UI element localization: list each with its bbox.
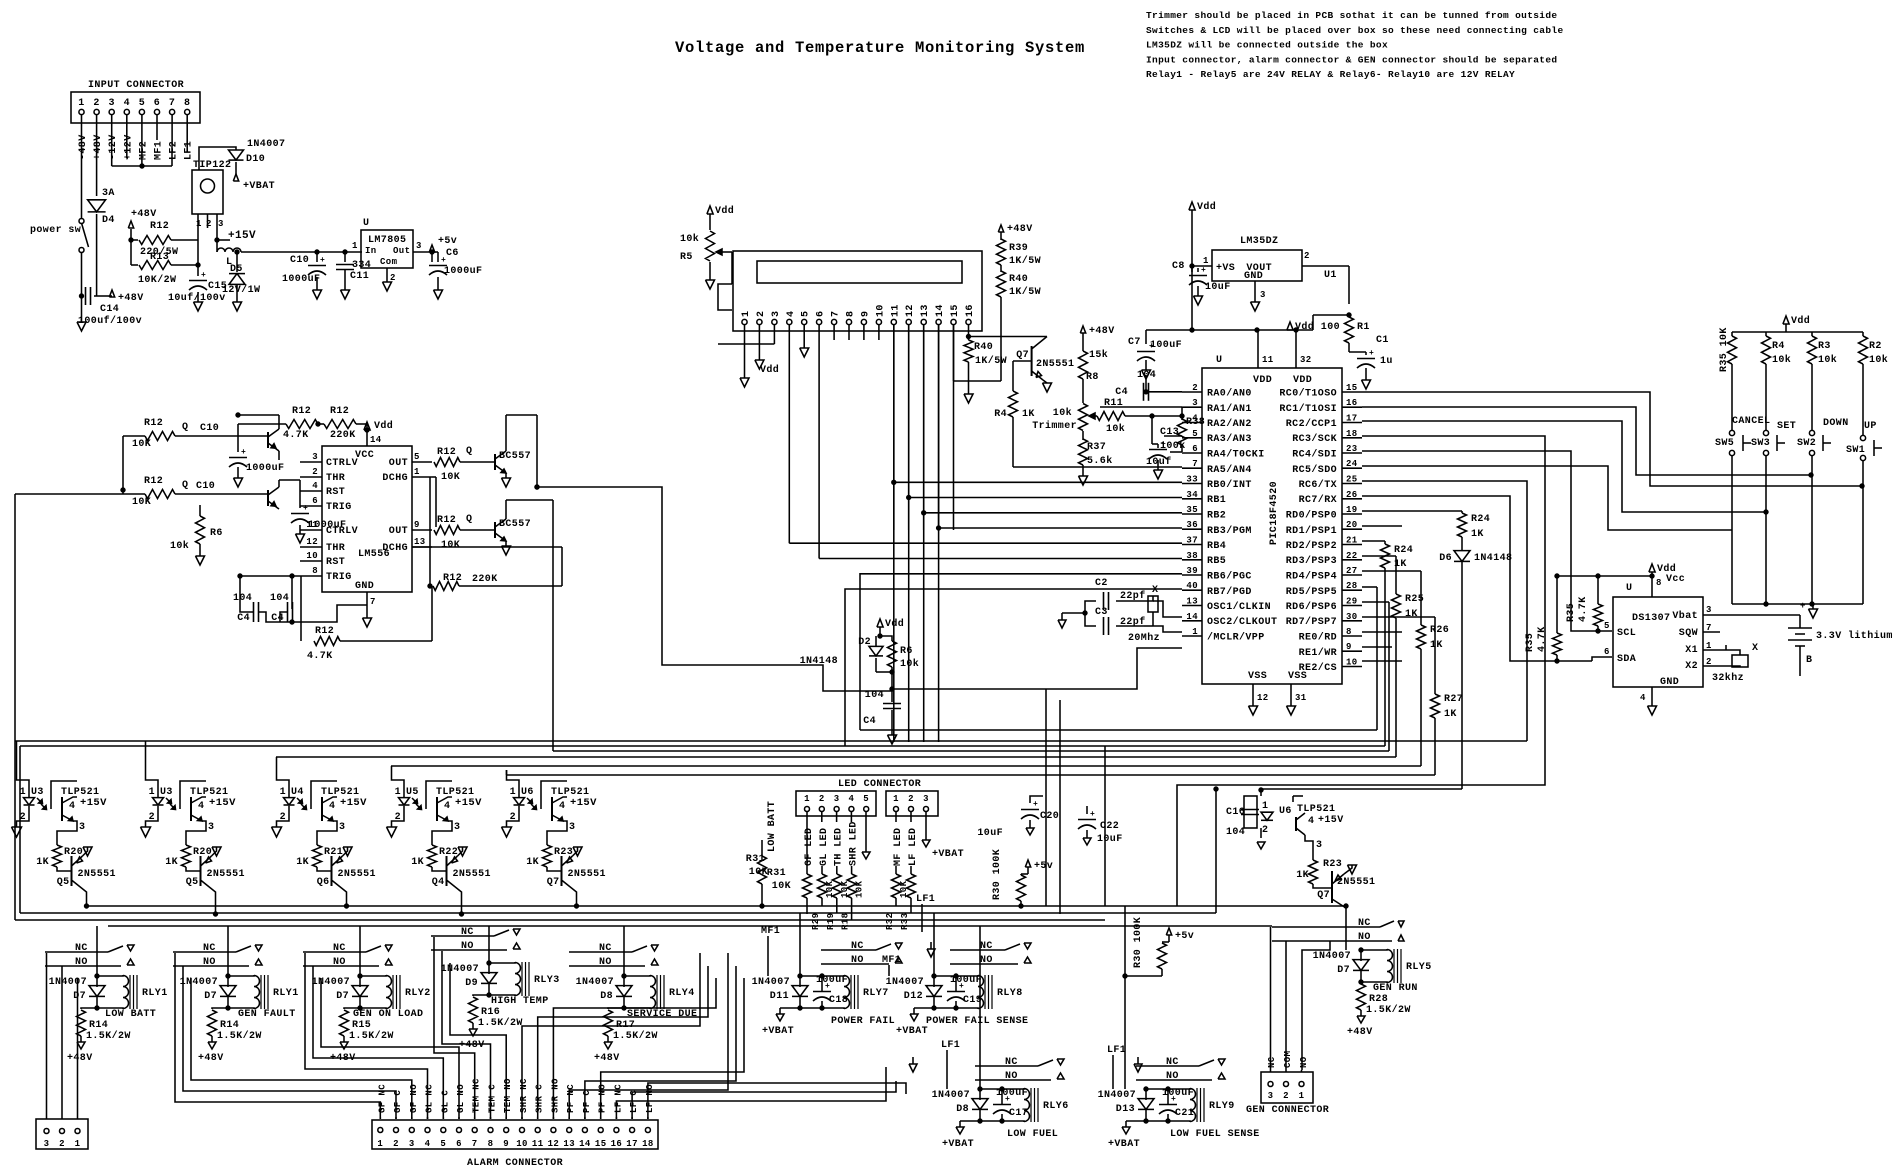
svg-text:1N4007: 1N4007 <box>441 964 479 975</box>
svg-text:+48V: +48V <box>93 134 104 160</box>
svg-text:Voltage and Temperature Monito: Voltage and Temperature Monitoring Syste… <box>675 39 1085 57</box>
svg-text:1: 1 <box>78 98 84 109</box>
svg-text:1000uF: 1000uF <box>246 463 284 474</box>
svg-text:10K: 10K <box>441 472 460 483</box>
svg-text:COM: COM <box>1283 1051 1293 1068</box>
svg-text:CTRLV: CTRLV <box>326 458 358 469</box>
svg-text:2N5551: 2N5551 <box>1036 359 1074 370</box>
svg-text:+: + <box>303 504 308 513</box>
svg-text:Vdd: Vdd <box>374 420 393 432</box>
svg-text:12: 12 <box>1257 693 1269 703</box>
svg-text:Q5: Q5 <box>57 877 70 888</box>
svg-text:8: 8 <box>846 311 857 317</box>
svg-text:2: 2 <box>59 1139 65 1149</box>
svg-text:1K/5W: 1K/5W <box>1009 286 1041 298</box>
svg-text:10uF: 10uF <box>977 828 1003 839</box>
svg-text:10k: 10k <box>1869 354 1888 366</box>
svg-text:TRIG: TRIG <box>326 502 352 513</box>
svg-text:15: 15 <box>950 304 961 317</box>
svg-text:R30 100K: R30 100K <box>1133 917 1144 968</box>
svg-text:RC0/T1OSO: RC0/T1OSO <box>1279 388 1337 400</box>
svg-text:B: B <box>1806 655 1812 666</box>
svg-text:100uF: 100uF <box>1150 340 1182 351</box>
svg-text:2N5551: 2N5551 <box>78 869 116 880</box>
svg-text:10K: 10K <box>749 867 768 878</box>
svg-text:LED CONNECTOR: LED CONNECTOR <box>838 779 921 790</box>
svg-text:6: 6 <box>312 496 318 506</box>
svg-text:10uF: 10uF <box>1205 282 1231 293</box>
svg-text:+48V: +48V <box>67 1053 93 1064</box>
svg-text:8: 8 <box>184 98 190 109</box>
svg-text:4: 4 <box>69 801 75 812</box>
svg-text:+: + <box>320 256 325 265</box>
svg-text:+15V: +15V <box>1318 815 1344 826</box>
svg-text:MF2: MF2 <box>138 141 149 160</box>
svg-text:10: 10 <box>306 551 318 561</box>
svg-text:DOWN: DOWN <box>1823 418 1849 429</box>
svg-text:GL NC: GL NC <box>425 1084 435 1113</box>
svg-text:2: 2 <box>393 1139 399 1149</box>
svg-text:4.7K: 4.7K <box>1537 626 1548 652</box>
svg-text:+: + <box>1171 1095 1176 1104</box>
svg-text:16: 16 <box>965 304 976 317</box>
svg-text:Vcc: Vcc <box>1666 574 1685 585</box>
svg-text:+VBAT: +VBAT <box>932 849 964 860</box>
svg-text:12: 12 <box>548 1139 560 1149</box>
svg-text:1: 1 <box>395 787 401 798</box>
svg-text:21: 21 <box>1346 536 1358 546</box>
svg-text:+: + <box>1369 349 1374 358</box>
svg-text:10: 10 <box>875 304 886 317</box>
svg-text:R4: R4 <box>1772 341 1785 352</box>
svg-text:R23: R23 <box>1323 859 1342 870</box>
svg-text:7: 7 <box>472 1139 478 1149</box>
svg-text:R12: R12 <box>443 573 462 584</box>
svg-text:2N5551: 2N5551 <box>338 869 376 880</box>
svg-text:U: U <box>363 218 369 229</box>
svg-text:R20: R20 <box>64 847 83 858</box>
svg-text:MF1: MF1 <box>761 926 780 937</box>
svg-text:1: 1 <box>893 794 899 804</box>
svg-text:3: 3 <box>208 822 214 833</box>
svg-text:D7: D7 <box>204 991 217 1002</box>
svg-text:LF1: LF1 <box>916 894 935 905</box>
svg-text:10uF: 10uF <box>1097 834 1123 845</box>
svg-text:RE0/RD: RE0/RD <box>1299 632 1337 644</box>
svg-text:1K: 1K <box>1022 409 1035 420</box>
svg-text:CANCEL: CANCEL <box>1732 416 1770 427</box>
svg-text:R12: R12 <box>315 626 334 637</box>
svg-text:3.3V lithium: 3.3V lithium <box>1816 630 1893 642</box>
svg-text:1: 1 <box>414 467 420 477</box>
svg-text:DCHG: DCHG <box>382 543 408 554</box>
svg-text:RD4/PSP4: RD4/PSP4 <box>1286 571 1337 583</box>
svg-text:4.7K: 4.7K <box>283 430 309 441</box>
svg-text:TH LED: TH LED <box>834 828 845 866</box>
svg-text:5: 5 <box>414 452 420 462</box>
svg-text:RLY1: RLY1 <box>142 988 168 999</box>
svg-text:4: 4 <box>124 98 130 109</box>
svg-text:TRIG: TRIG <box>326 572 352 583</box>
svg-text:16: 16 <box>1346 398 1358 408</box>
svg-text:R24: R24 <box>1471 514 1490 525</box>
svg-text:RLY4: RLY4 <box>669 988 695 999</box>
svg-text:4.7K: 4.7K <box>307 651 333 662</box>
svg-text:1000uF: 1000uF <box>282 274 320 285</box>
svg-text:5.6k: 5.6k <box>1087 455 1113 467</box>
svg-text:2: 2 <box>149 812 155 823</box>
svg-text:OSC2/CLKOUT: OSC2/CLKOUT <box>1207 616 1277 628</box>
svg-text:TEM C: TEM C <box>488 1084 498 1113</box>
svg-text:GF LED: GF LED <box>804 828 815 866</box>
svg-text:220K: 220K <box>472 574 498 585</box>
svg-text:RA3/AN3: RA3/AN3 <box>1207 433 1252 445</box>
svg-text:R2: R2 <box>1869 341 1882 352</box>
svg-text:+48V: +48V <box>131 209 157 220</box>
svg-text:1N4007: 1N4007 <box>312 977 350 988</box>
svg-text:104: 104 <box>233 593 252 604</box>
svg-text:1K: 1K <box>411 857 424 868</box>
svg-text:1K: 1K <box>36 857 49 868</box>
svg-text:8: 8 <box>1346 627 1352 637</box>
svg-text:1N4007: 1N4007 <box>886 977 924 988</box>
svg-text:6: 6 <box>1192 444 1198 454</box>
svg-text:3: 3 <box>1316 840 1322 851</box>
svg-text:R12: R12 <box>437 515 456 526</box>
svg-text:RB4: RB4 <box>1207 541 1226 552</box>
svg-text:+15V: +15V <box>455 797 482 809</box>
svg-text:Q7: Q7 <box>1016 350 1029 361</box>
svg-text:10K: 10K <box>899 880 909 898</box>
svg-text:+VBAT: +VBAT <box>942 1139 974 1150</box>
svg-text:+: + <box>1005 1095 1010 1104</box>
svg-text:RLY2: RLY2 <box>405 988 431 999</box>
svg-text:SHR C: SHR C <box>535 1084 545 1113</box>
svg-text:8: 8 <box>1656 578 1662 588</box>
svg-text:RLY6: RLY6 <box>1043 1101 1069 1112</box>
svg-text:SW5: SW5 <box>1715 438 1734 449</box>
svg-text:RA2/AN2: RA2/AN2 <box>1207 418 1252 430</box>
svg-text:Vdd: Vdd <box>760 364 779 376</box>
svg-text:1: 1 <box>149 787 155 798</box>
svg-text:GL C: GL C <box>440 1090 450 1113</box>
svg-text:10: 10 <box>1346 658 1358 668</box>
svg-text:9: 9 <box>503 1139 509 1149</box>
svg-text:RLY9: RLY9 <box>1209 1101 1235 1112</box>
svg-text:4: 4 <box>1192 414 1198 424</box>
svg-text:R40: R40 <box>974 342 993 353</box>
svg-text:10K: 10K <box>855 880 865 898</box>
svg-text:RE2/CS: RE2/CS <box>1299 662 1337 674</box>
svg-text:RC7/RX: RC7/RX <box>1299 494 1337 506</box>
svg-text:RB0/INT: RB0/INT <box>1207 479 1252 491</box>
svg-text:PF NO: PF NO <box>598 1084 608 1113</box>
svg-text:X1: X1 <box>1685 645 1698 656</box>
svg-text:2: 2 <box>510 812 516 823</box>
svg-text:12: 12 <box>905 304 916 317</box>
svg-text:C4: C4 <box>1115 387 1128 398</box>
svg-text:SERVICE DUE: SERVICE DUE <box>627 1009 697 1020</box>
svg-text:1: 1 <box>1262 801 1268 812</box>
svg-text:3: 3 <box>771 311 782 317</box>
svg-text:R39: R39 <box>1009 243 1028 254</box>
svg-text:1K: 1K <box>165 857 178 868</box>
svg-text:RLY7: RLY7 <box>863 988 889 999</box>
svg-text:1.5K/2W: 1.5K/2W <box>349 1030 394 1042</box>
svg-text:LM7805: LM7805 <box>368 235 406 246</box>
svg-text:R23: R23 <box>554 847 573 858</box>
svg-text:+: + <box>1033 800 1038 809</box>
svg-text:C3: C3 <box>1095 607 1108 618</box>
svg-text:RST: RST <box>326 487 345 498</box>
svg-text:THR: THR <box>326 473 345 484</box>
svg-text:GF C: GF C <box>393 1090 403 1113</box>
svg-text:3: 3 <box>409 1139 415 1149</box>
svg-text:SHR NC: SHR NC <box>519 1078 529 1113</box>
svg-text:R12: R12 <box>150 221 169 232</box>
svg-text:2: 2 <box>1283 1091 1289 1101</box>
svg-text:Relay1 - Relay5 are 24V RELAY: Relay1 - Relay5 are 24V RELAY & Relay6- … <box>1146 69 1515 80</box>
svg-text:5: 5 <box>1604 621 1610 631</box>
svg-text:32khz: 32khz <box>1712 672 1744 684</box>
svg-text:+: + <box>825 982 830 991</box>
svg-text:37: 37 <box>1186 536 1198 546</box>
svg-text:GEN RUN: GEN RUN <box>1373 983 1418 994</box>
svg-text:RD3/PSP3: RD3/PSP3 <box>1286 555 1337 567</box>
svg-text:INPUT CONNECTOR: INPUT CONNECTOR <box>88 80 184 91</box>
svg-text:In: In <box>365 246 377 256</box>
svg-text:1K: 1K <box>1405 609 1418 620</box>
svg-text:3: 3 <box>312 452 318 462</box>
svg-text:R4: R4 <box>994 409 1007 420</box>
svg-text:19: 19 <box>1346 505 1358 515</box>
svg-text:TLP521: TLP521 <box>1297 804 1335 815</box>
svg-text:Vdd: Vdd <box>885 618 904 630</box>
svg-text:GND: GND <box>1244 271 1263 282</box>
svg-text:R18: R18 <box>841 913 851 930</box>
svg-text:R22: R22 <box>439 847 458 858</box>
svg-text:2: 2 <box>312 467 318 477</box>
svg-text:2: 2 <box>908 794 914 804</box>
svg-text:14: 14 <box>579 1139 591 1149</box>
svg-text:2: 2 <box>1192 383 1198 393</box>
svg-text:U5: U5 <box>406 787 419 798</box>
svg-text:-48V: -48V <box>78 134 89 160</box>
svg-text:Q4: Q4 <box>432 877 445 888</box>
svg-text:VSS: VSS <box>1248 671 1267 682</box>
svg-text:LOW BATT: LOW BATT <box>767 801 778 852</box>
svg-text:MF1: MF1 <box>882 955 901 966</box>
svg-text:11: 11 <box>890 304 901 317</box>
svg-text:36: 36 <box>1186 520 1198 530</box>
svg-text:OUT: OUT <box>389 526 408 537</box>
svg-text:18: 18 <box>1346 429 1358 439</box>
svg-text:+48V: +48V <box>594 1053 620 1064</box>
svg-text:+48V: +48V <box>118 293 144 304</box>
svg-text:Q7: Q7 <box>1317 890 1330 901</box>
svg-text:TEM NC: TEM NC <box>472 1078 482 1113</box>
svg-text:MF LED: MF LED <box>893 828 904 866</box>
svg-text:1u: 1u <box>1380 356 1393 367</box>
svg-text:RLY3: RLY3 <box>534 975 560 986</box>
svg-text:1: 1 <box>75 1139 81 1149</box>
svg-text:C8: C8 <box>1172 261 1185 272</box>
svg-text:27: 27 <box>1346 566 1358 576</box>
svg-text:POWER FAIL: POWER FAIL <box>831 1016 895 1027</box>
svg-text:C2: C2 <box>1095 578 1108 589</box>
svg-text:R15: R15 <box>352 1020 371 1031</box>
svg-text:C20: C20 <box>1040 811 1059 822</box>
svg-text:28: 28 <box>1346 581 1358 591</box>
svg-text:/MCLR/VPP: /MCLR/VPP <box>1207 632 1265 644</box>
svg-text:1: 1 <box>1203 256 1209 266</box>
svg-text:RD7/PSP7: RD7/PSP7 <box>1286 616 1337 628</box>
svg-text:GF NO: GF NO <box>409 1084 419 1113</box>
svg-text:C10: C10 <box>290 255 309 266</box>
svg-text:+15V: +15V <box>80 797 107 809</box>
svg-text:R12: R12 <box>437 447 456 458</box>
svg-text:3: 3 <box>1192 398 1198 408</box>
svg-text:HIGH TEMP: HIGH TEMP <box>491 996 549 1007</box>
svg-text:+48V: +48V <box>1089 326 1115 337</box>
svg-text:GF NC: GF NC <box>377 1084 387 1113</box>
svg-text:RC1/T1OSI: RC1/T1OSI <box>1279 403 1337 415</box>
svg-text:RA0/AN0: RA0/AN0 <box>1207 388 1252 400</box>
svg-text:14: 14 <box>1186 612 1198 622</box>
svg-text:1: 1 <box>280 787 286 798</box>
svg-text:MF1: MF1 <box>154 141 165 160</box>
svg-text:R27: R27 <box>1444 694 1463 705</box>
svg-text:Vbat: Vbat <box>1672 610 1698 622</box>
svg-text:+48V: +48V <box>1007 224 1033 235</box>
svg-text:3: 3 <box>1706 605 1712 615</box>
svg-text:D8: D8 <box>956 1104 969 1115</box>
svg-text:15k: 15k <box>1089 349 1108 361</box>
svg-text:D4: D4 <box>102 215 115 226</box>
svg-text:100uf/100v: 100uf/100v <box>78 315 142 327</box>
svg-text:+15V: +15V <box>209 797 236 809</box>
svg-text:3: 3 <box>44 1139 50 1149</box>
svg-text:10K: 10K <box>132 497 151 508</box>
svg-text:1N4007: 1N4007 <box>1098 1090 1136 1101</box>
svg-text:GEN CONNECTOR: GEN CONNECTOR <box>1246 1105 1329 1116</box>
svg-text:+5v: +5v <box>1034 861 1053 872</box>
svg-text:Switches & LCD will be placed: Switches & LCD will be placed over box s… <box>1146 25 1564 36</box>
svg-text:SDA: SDA <box>1617 654 1636 665</box>
svg-text:RB1: RB1 <box>1207 495 1226 506</box>
svg-text:GEN ON LOAD: GEN ON LOAD <box>353 1009 423 1020</box>
svg-text:1K: 1K <box>526 857 539 868</box>
svg-text:power sw: power sw <box>30 225 81 236</box>
svg-text:Trimmer should be placed in PC: Trimmer should be placed in PCB sothat i… <box>1146 10 1557 21</box>
svg-text:3: 3 <box>834 794 840 804</box>
svg-text:35: 35 <box>1186 505 1198 515</box>
svg-text:2: 2 <box>93 98 99 109</box>
svg-text:+VBAT: +VBAT <box>1108 1139 1140 1150</box>
svg-text:11: 11 <box>532 1139 544 1149</box>
svg-text:+: + <box>1201 266 1206 275</box>
svg-text:PF C: PF C <box>582 1090 592 1113</box>
svg-text:1K: 1K <box>1296 870 1309 881</box>
svg-text:2: 2 <box>395 812 401 823</box>
svg-text:LF1: LF1 <box>1107 1045 1126 1056</box>
svg-text:+: + <box>201 271 206 280</box>
svg-text:U1: U1 <box>1324 270 1337 281</box>
svg-text:R3: R3 <box>1818 341 1831 352</box>
svg-text:RB7/PGD: RB7/PGD <box>1207 586 1252 598</box>
svg-text:12V/1W: 12V/1W <box>222 284 260 296</box>
svg-text:RB5: RB5 <box>1207 556 1226 567</box>
svg-text:38: 38 <box>1186 551 1198 561</box>
svg-text:NO: NO <box>1299 1056 1309 1068</box>
svg-text:Input connector, alarm connect: Input connector, alarm connector & GEN c… <box>1146 54 1557 65</box>
svg-text:D7: D7 <box>336 991 349 1002</box>
svg-text:4: 4 <box>198 801 204 812</box>
svg-text:3: 3 <box>1260 290 1266 300</box>
svg-text:2N5551: 2N5551 <box>1337 877 1375 888</box>
svg-text:6: 6 <box>816 311 827 317</box>
svg-text:RC5/SDO: RC5/SDO <box>1292 464 1337 476</box>
svg-text:23: 23 <box>1346 444 1358 454</box>
svg-text:R35 10K: R35 10K <box>1719 327 1730 372</box>
svg-text:RD2/PSP2: RD2/PSP2 <box>1286 540 1337 552</box>
svg-text:RA1/AN1: RA1/AN1 <box>1207 403 1252 415</box>
svg-text:OUT: OUT <box>389 458 408 469</box>
svg-text:RA4/T0CKI: RA4/T0CKI <box>1207 449 1265 461</box>
svg-text:2: 2 <box>756 311 767 317</box>
svg-text:R21: R21 <box>324 847 343 858</box>
svg-text:2: 2 <box>1304 251 1310 261</box>
svg-text:U6: U6 <box>1279 806 1292 817</box>
svg-text:10K: 10K <box>441 540 460 551</box>
svg-text:Vdd: Vdd <box>1197 201 1216 213</box>
svg-text:C7: C7 <box>1128 337 1141 348</box>
svg-text:R37: R37 <box>1087 442 1106 453</box>
svg-text:+VBAT: +VBAT <box>243 181 275 192</box>
svg-text:2N5551: 2N5551 <box>453 869 491 880</box>
svg-text:10k: 10k <box>170 540 189 552</box>
svg-text:10K/2W: 10K/2W <box>138 274 176 286</box>
svg-text:C14: C14 <box>100 304 119 315</box>
svg-text:D11: D11 <box>770 991 789 1002</box>
svg-text:10K: 10K <box>132 439 151 450</box>
svg-text:1000uF: 1000uF <box>308 520 346 531</box>
svg-text:D6: D6 <box>1439 553 1452 564</box>
svg-text:4: 4 <box>312 481 318 491</box>
svg-text:1N4007: 1N4007 <box>180 977 218 988</box>
svg-text:C1: C1 <box>1376 335 1389 346</box>
svg-text:+: + <box>1800 601 1806 611</box>
svg-text:R6: R6 <box>900 646 913 657</box>
svg-text:R16: R16 <box>481 1007 500 1018</box>
svg-text:14: 14 <box>370 435 382 445</box>
svg-text:SW2: SW2 <box>1797 438 1816 449</box>
svg-text:+48V: +48V <box>198 1053 224 1064</box>
svg-text:Q7: Q7 <box>547 877 560 888</box>
svg-text:C10: C10 <box>196 481 215 492</box>
svg-text:Vdd: Vdd <box>1791 315 1810 327</box>
svg-text:13: 13 <box>1186 597 1198 607</box>
svg-text:1: 1 <box>352 241 358 251</box>
svg-text:1K: 1K <box>1444 709 1457 720</box>
svg-text:9: 9 <box>860 311 871 317</box>
svg-text:LF1: LF1 <box>184 141 195 160</box>
svg-text:LF NO: LF NO <box>645 1084 655 1113</box>
svg-text:LF LED: LF LED <box>908 828 919 866</box>
svg-text:Q5: Q5 <box>186 877 199 888</box>
svg-text:1: 1 <box>741 311 752 317</box>
svg-text:SHR LED: SHR LED <box>848 821 859 866</box>
